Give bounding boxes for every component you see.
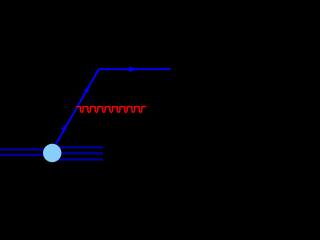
- proton remnant line 1: [52, 146, 103, 148]
- proton remnant line 3: [52, 158, 103, 160]
- gluon (red curly line): [76, 106, 146, 112]
- outgoing quark line (horizontal): [98, 68, 171, 70]
- incoming proton line (upper): [0, 148, 52, 150]
- proton remnant line 2: [52, 152, 103, 154]
- arrow on upper quark segment: [84, 86, 90, 93]
- quark line upper segment (gluon vertex to kink): [77, 70, 99, 108]
- arrow on lower quark segment: [61, 124, 67, 131]
- incoming proton line (lower): [0, 154, 52, 156]
- arrow on outgoing quark line: [129, 67, 137, 72]
- quark line lower segment (blob to gluon vertex): [51, 107, 77, 153]
- proton blob: [43, 144, 61, 162]
